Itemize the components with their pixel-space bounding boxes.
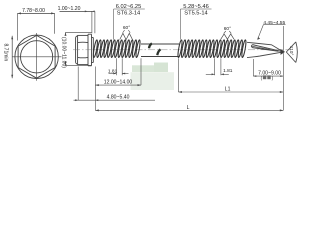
break mark 2 xyxy=(157,49,160,55)
break mark 1 xyxy=(149,43,152,48)
watermark block xyxy=(131,72,175,90)
arrow L right xyxy=(280,109,284,111)
washer right xyxy=(91,34,93,66)
underline 5.28-5.46 xyxy=(181,8,212,10)
dim 10.00-11.00 line bottom seg xyxy=(65,62,67,66)
dim L1 ext left xyxy=(177,58,179,92)
svg-text:1.81: 1.81 xyxy=(108,69,118,75)
dim 10.00-11.00 bottom ext xyxy=(66,64,92,66)
hex facet line upper xyxy=(78,41,88,43)
svg-text:4.80~5.40: 4.80~5.40 xyxy=(107,95,130,101)
svg-text:1.00~1.20: 1.00~1.20 xyxy=(58,6,81,12)
svg-text:110°: 110° xyxy=(288,46,294,56)
dim L1 line xyxy=(178,91,283,93)
front view centerline horizontal xyxy=(13,56,62,58)
arrow 1.81b right xyxy=(221,73,224,75)
washer face shared ext xyxy=(94,67,96,111)
60deg leader 2b xyxy=(229,31,231,33)
front view centerline vertical xyxy=(36,33,38,81)
dim 4.45-4.55 leader xyxy=(258,25,264,40)
arrow 7-9 left xyxy=(253,75,256,77)
60deg leader 1b xyxy=(128,30,130,33)
arrow 4.8-5.4 right xyxy=(95,99,98,101)
svg-text:ST6.3-14: ST6.3-14 xyxy=(117,11,140,17)
watermark step xyxy=(154,63,168,73)
point angle fan arc xyxy=(296,42,298,63)
ext line tip vertical xyxy=(282,26,284,110)
arrow 1.00 left xyxy=(85,11,88,13)
svg-text:L: L xyxy=(187,105,190,111)
arrow 4.8-5.4 left xyxy=(75,99,78,101)
dim 7.78-8.00 ext right xyxy=(54,13,56,33)
dim 4.45-4.55 underline xyxy=(263,24,285,26)
arrows xyxy=(11,11,283,112)
arrow L1 left xyxy=(178,91,182,93)
dim 1.81 #1 line right xyxy=(122,73,128,75)
svg-text:12.00~14.00: 12.00~14.00 xyxy=(104,79,133,85)
washer top xyxy=(88,33,92,35)
dim 7.00-9.00 ext left xyxy=(252,59,254,76)
60deg leader 1a xyxy=(123,30,125,33)
arrow 12-14 left xyxy=(95,84,99,86)
washer left xyxy=(87,34,89,66)
svg-text:1.81: 1.81 xyxy=(223,68,233,74)
shank lines xyxy=(141,43,179,45)
hex top xyxy=(78,34,88,36)
arrow 1.00 right xyxy=(92,11,95,13)
hex facet line lower xyxy=(78,56,88,58)
dim 10.00-11.00 top ext xyxy=(66,31,92,33)
svg-text:7.78~8.00: 7.78~8.00 xyxy=(22,8,45,14)
arrow 7.78 left xyxy=(18,12,22,14)
watermark bar xyxy=(132,65,168,72)
thread profile zigzag 2 xyxy=(221,34,234,39)
dim L line xyxy=(95,109,283,111)
svg-text:ST5.5-14: ST5.5-14 xyxy=(184,11,207,17)
neck rim left xyxy=(92,38,94,63)
svg-text:60°: 60° xyxy=(123,25,130,31)
dim 1.81 #2 ext left xyxy=(214,58,216,75)
dim 1.00-1.20 line xyxy=(60,10,93,12)
arrow 7.78 right xyxy=(51,12,55,14)
svg-text:8.71min: 8.71min xyxy=(3,44,9,62)
arrow 12-14 right xyxy=(138,84,142,86)
svg-text:(10.00~11.00): (10.00~11.00) xyxy=(61,37,67,68)
drill tail note glyph 1 xyxy=(263,75,266,79)
axis centerline xyxy=(73,49,290,51)
thread profile zigzag 1 xyxy=(120,33,133,39)
drill tip solid xyxy=(281,49,286,55)
front view outer circle (washer flange) xyxy=(15,35,58,78)
60deg leader 2a xyxy=(224,31,226,33)
dim 12.00-14.00 line xyxy=(95,84,141,86)
svg-text:4.45~4.55: 4.45~4.55 xyxy=(263,20,285,26)
drill point bottom edge xyxy=(247,52,283,58)
front view hexagon xyxy=(18,35,55,78)
drill point flute diagonal 2 xyxy=(253,48,279,52)
svg-text:60°: 60° xyxy=(224,26,231,32)
arrow 7-9 right xyxy=(280,75,283,77)
arrow 10-11 top xyxy=(65,32,67,36)
arrow leader 4.45 xyxy=(257,37,260,40)
dim 10.00-11.00 line top seg xyxy=(65,32,67,35)
drill point flute arc xyxy=(251,45,252,48)
washer bottom xyxy=(88,65,92,67)
arrow 1.81a right xyxy=(122,73,125,75)
hex face left xyxy=(77,35,79,64)
dim 4.80-5.40 ext left xyxy=(77,67,79,101)
head chamfer bottom xyxy=(76,63,78,65)
dim 7.78-8.00 line xyxy=(18,12,55,14)
drill point flute diagonal 1 xyxy=(253,45,284,52)
neck top xyxy=(92,37,94,39)
arrow 1.81a left xyxy=(113,73,116,75)
thread section 1 strokes xyxy=(93,40,141,58)
dim 1.81 #1 ext right xyxy=(121,58,123,75)
arrow 10-11 bottom xyxy=(65,62,67,66)
hex bottom xyxy=(78,64,88,66)
point angle fan edge top xyxy=(286,42,296,52)
drill point flute diagonal 3 xyxy=(252,46,271,50)
dim 1.00-1.20 ext right xyxy=(94,11,96,33)
arrow L1 right xyxy=(280,91,284,93)
front view inner circle xyxy=(20,41,52,73)
underline 6.02-6.25 xyxy=(114,8,145,10)
dim 1.81 #2 line right xyxy=(221,73,229,75)
arrow 8.71 bottom xyxy=(11,75,13,79)
bracket ST6.3-14 left xyxy=(113,9,115,40)
drill point top edge xyxy=(247,42,283,52)
arrow 1.81b left xyxy=(212,73,215,75)
point angle fan edge bottom xyxy=(286,52,296,63)
arrow 8.71 top xyxy=(11,36,13,40)
dim 1.81 #1 ext left xyxy=(115,58,117,75)
svg-text:(: ( xyxy=(261,76,263,81)
svg-text:L1: L1 xyxy=(225,87,231,93)
head left face xyxy=(75,37,77,63)
dim 4.80-5.40 line xyxy=(74,99,156,101)
dim 12.00-14.00 ext right xyxy=(140,58,142,85)
dim 1.81 #2 ext right xyxy=(220,58,222,75)
dim 1.81 #1 line left xyxy=(109,73,117,75)
arrow L left xyxy=(95,109,99,111)
dim 7.00-9.00 line xyxy=(253,75,283,77)
dim 8.71min line xyxy=(11,36,13,78)
neck bottom xyxy=(92,62,94,64)
head chamfer top xyxy=(76,35,78,37)
drill tail note glyph 2 xyxy=(267,75,270,79)
dim 7.78-8.00 ext left xyxy=(17,13,19,40)
bracket ST5.5-14 left xyxy=(180,9,182,40)
dim 1.00-1.20 ext left xyxy=(91,11,93,33)
svg-text:): ) xyxy=(272,76,274,81)
dim 1.81 #2 line left xyxy=(206,73,215,75)
